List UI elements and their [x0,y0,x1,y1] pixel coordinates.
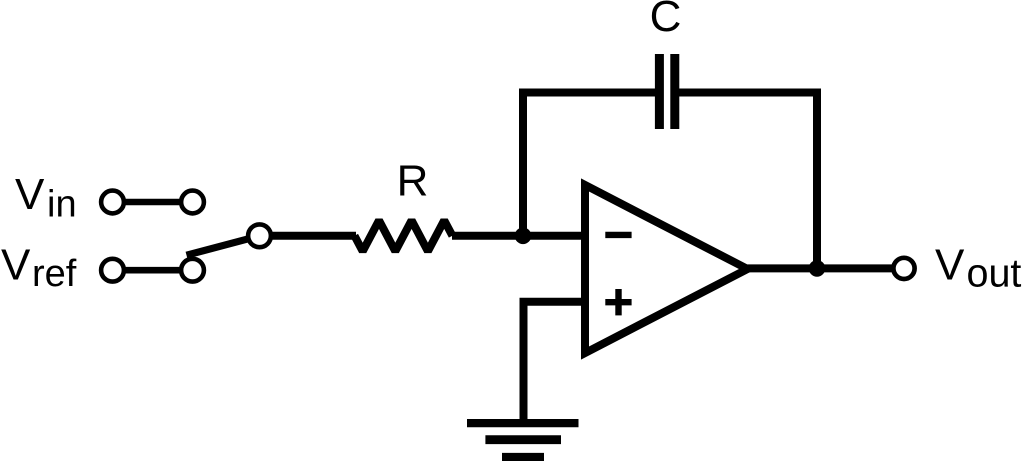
wire Vref terminal bar [113,267,193,274]
wire op-amp output to Vout terminal [748,264,905,272]
op-amp minus sign [605,232,631,238]
terminal circle Vin left [101,191,124,214]
node junction at inverting input [515,228,532,245]
op-amp plus sign [605,289,631,315]
label Vin [15,170,77,226]
svg-text:out: out [967,251,1022,295]
label Vref [1,240,77,294]
node junction at output feedback tap [809,260,826,277]
capacitor C left plate [655,54,664,129]
ground middle bar [485,435,561,444]
terminal circle Vout [893,258,914,279]
svg-text:in: in [47,184,77,226]
ground top bar [467,419,579,427]
resistor R zigzag [355,220,453,251]
svg-text:C: C [650,0,682,41]
terminal circle Vref left [101,259,124,282]
svg-text:V: V [15,170,45,219]
wire non-inverting input to ground [524,302,586,421]
label Vout [935,240,1021,295]
capacitor C right plate [670,54,679,129]
svg-text:ref: ref [32,253,77,295]
terminal circle switch pole [248,224,271,247]
wire Vin terminal bar [113,199,193,206]
terminal circle Vin right (switch throw 1) [181,191,204,214]
svg-text:V: V [935,240,965,289]
wire capacitor to right vertical down to output [675,93,818,269]
op-amp U1 triangle [585,185,748,353]
wire pole to resistor [260,232,357,240]
ground bottom bar [502,453,544,461]
wire resistor to op-amp inverting input [452,232,585,240]
wire feedback left vertical + top run to capacitor [523,93,660,236]
terminal circle Vref right (switch throw 2) [181,259,204,282]
svg-text:R: R [397,157,429,206]
svg-text:V: V [1,240,31,289]
switch SW1 arm (throw to pole) [187,237,255,255]
